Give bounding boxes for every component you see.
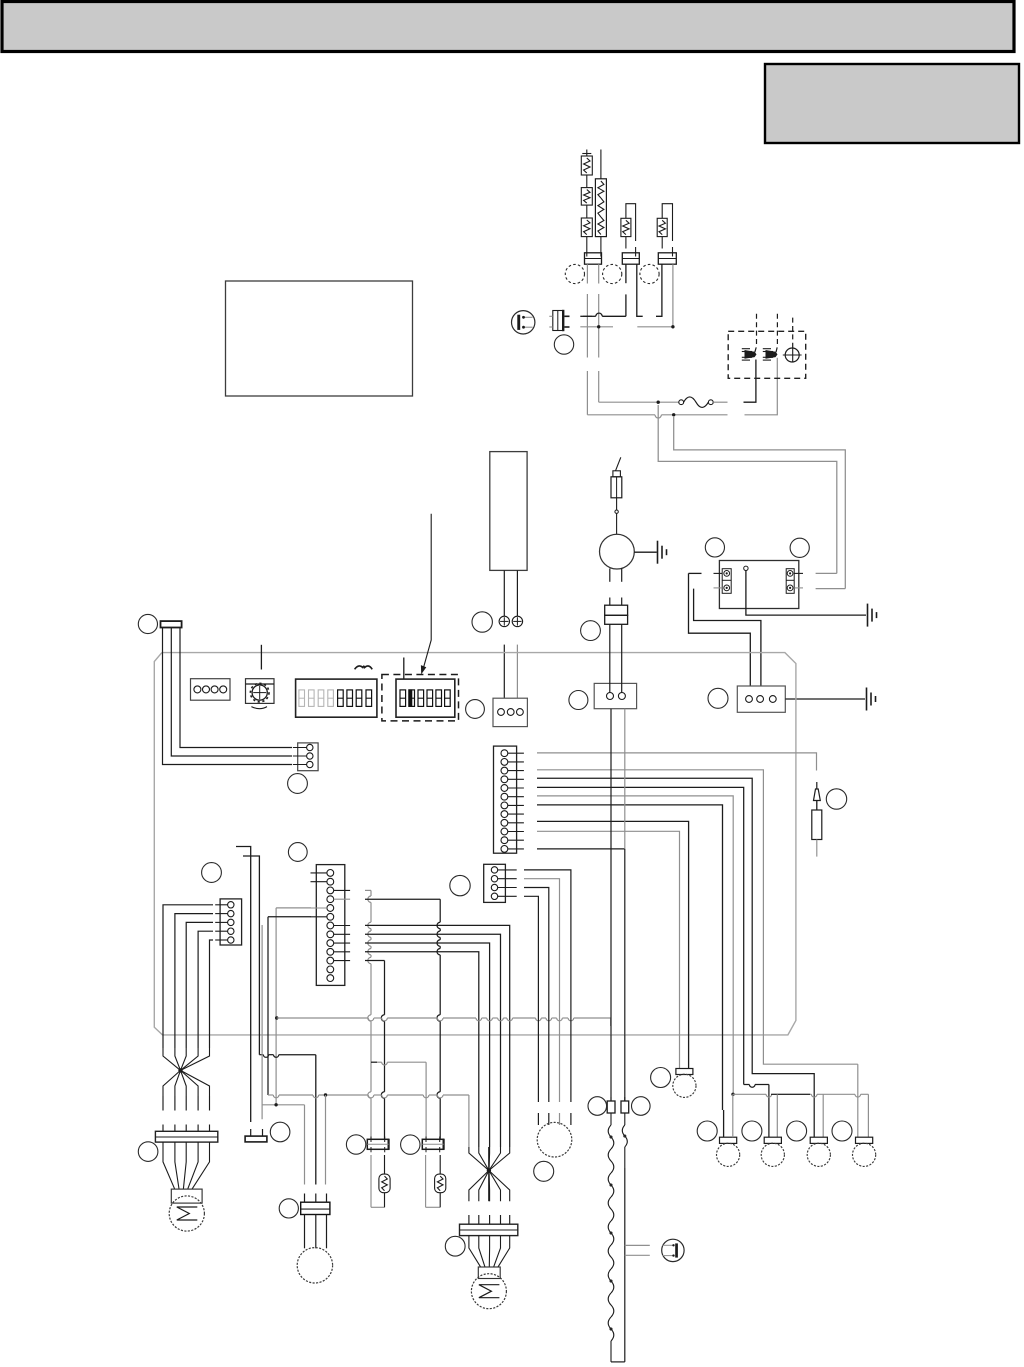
- wire fuse line: [599, 401, 679, 404]
- wire TB-C right: [637, 264, 674, 328]
- connector CN4: [737, 686, 785, 712]
- wire display lead 2: [516, 570, 518, 616]
- bus B1018: [275, 1016, 611, 1026]
- connector CN9 (4-pin): [484, 864, 517, 902]
- twisted wire right: [622, 1125, 627, 1362]
- resistor chain R1 (3 in series): [581, 150, 592, 257]
- wire relay left 2: [694, 589, 761, 686]
- callout 9: [708, 688, 728, 708]
- callout 29: [826, 789, 846, 809]
- wire L8: [537, 831, 680, 1068]
- title bar: [2, 2, 1014, 52]
- motor M1 neck: [171, 1189, 202, 1203]
- wire relay feed outer: [674, 417, 846, 589]
- wire bus L1: [580, 313, 626, 316]
- DIP switch SW2 (dashed): [382, 675, 459, 721]
- component PZ: [245, 1129, 267, 1142]
- callout 18: [445, 1236, 465, 1256]
- wire M4 fan: [469, 1236, 510, 1267]
- fuse F1: [679, 397, 728, 408]
- wire R5: [365, 943, 490, 1147]
- callout 1: [565, 264, 584, 283]
- wire L7: [537, 821, 689, 1068]
- resistor R2 (triple block): [595, 150, 606, 257]
- bus BB1094: [731, 1093, 868, 1138]
- callout 16: [346, 1135, 365, 1154]
- wire relay right top: [816, 572, 837, 574]
- DIP switch SW1: [296, 679, 377, 717]
- resistor R4 hairpin: [657, 204, 672, 257]
- wire screw to CN3 b: [516, 645, 518, 699]
- legend box: [226, 281, 413, 396]
- callout 10: [466, 700, 485, 719]
- motor M2: [537, 1122, 572, 1157]
- callout 5: [472, 612, 492, 632]
- connector CN6 (12-pin): [494, 746, 524, 853]
- callout 21: [632, 1097, 651, 1116]
- pair fuse FB: [621, 1097, 629, 1125]
- wire TB-B right: [637, 264, 643, 316]
- callout 7: [705, 538, 724, 557]
- callout 19: [651, 1068, 671, 1088]
- callout 25: [288, 843, 307, 862]
- brace mark: [355, 666, 373, 669]
- callout 20: [588, 1097, 607, 1116]
- callout 6: [581, 621, 601, 641]
- wire TB2-1: [180, 628, 292, 748]
- screw terminal 1: [499, 616, 509, 626]
- arrester E1: [742, 339, 757, 360]
- callout lamp 1: [697, 1121, 717, 1141]
- switch S1: [512, 311, 535, 334]
- power plug: [549, 310, 569, 331]
- wire L1: [537, 753, 817, 771]
- wire R7 fuse1 right: [365, 961, 385, 1140]
- terminal block TB-B: [622, 253, 639, 264]
- callout 4: [554, 335, 573, 354]
- screw terminal 2: [512, 616, 522, 626]
- wire FM ground: [634, 551, 657, 553]
- fan motor FM: [600, 534, 635, 569]
- wire TB2-3: [163, 628, 293, 765]
- ground G1: [658, 541, 667, 564]
- lamp LP1: [717, 1137, 740, 1166]
- pair end join: [611, 1361, 625, 1363]
- wire TB2-2: [171, 628, 292, 757]
- wire R2 fuse2 right: [365, 899, 440, 1139]
- surge arrester box (dashed): [728, 331, 806, 378]
- wire pin5 left: [276, 908, 311, 1105]
- dashed lead 2: [776, 314, 778, 338]
- callout 24: [202, 863, 222, 883]
- callout 2: [603, 264, 622, 283]
- lamp LP3: [807, 1137, 830, 1166]
- wire neutral line: [587, 413, 727, 418]
- display module: [490, 452, 527, 571]
- connector CN10: [293, 743, 318, 771]
- thermal fuse TF1: [371, 1155, 390, 1207]
- callout arrow: [421, 514, 431, 675]
- wire M1 fan: [163, 1142, 210, 1189]
- wire R6: [365, 952, 479, 1147]
- terminal strip TS1: [301, 1194, 330, 1249]
- callout 12: [279, 1199, 298, 1218]
- callout lamp 3: [787, 1121, 807, 1141]
- lamp LP0: [673, 1069, 696, 1098]
- callout 17: [401, 1135, 420, 1154]
- wire bus N1: [580, 325, 613, 328]
- wire to arrester 1: [744, 360, 756, 403]
- wire buzzer stub: [260, 645, 262, 670]
- callout 22: [138, 614, 157, 633]
- wire H1104: [262, 1103, 304, 1184]
- terminal block TB-C: [658, 253, 676, 264]
- callout 23: [288, 774, 308, 794]
- ground G3: [867, 688, 876, 711]
- subtitle box: [765, 64, 1019, 143]
- wire L4: [537, 787, 769, 1137]
- thermistor TH2: [812, 782, 822, 857]
- dashed lead 3: [792, 318, 794, 349]
- wire V262: [261, 925, 263, 1119]
- motor M4 neck: [478, 1267, 500, 1279]
- callout 15: [534, 1161, 554, 1181]
- motor M3: [297, 1248, 332, 1283]
- callout 11: [270, 1122, 290, 1142]
- wire M2 harness: [524, 870, 571, 1125]
- wire lamp1 right: [732, 1094, 734, 1137]
- wire V250: [236, 847, 251, 1123]
- PCB outline: [154, 653, 796, 1035]
- wire M4 stubs: [469, 1215, 510, 1224]
- wire L5: [537, 796, 733, 1094]
- thermistor TH1: [611, 457, 622, 534]
- wire TB-B left: [625, 264, 627, 316]
- wire display lead 1: [503, 570, 505, 616]
- wire L3: [537, 778, 814, 1137]
- wire M1 leads: [163, 1096, 210, 1131]
- wire SW2 stub: [403, 658, 405, 680]
- fuse holder FH2: [422, 1137, 443, 1153]
- callout 14: [450, 875, 470, 895]
- wire R3: [365, 925, 510, 1147]
- wire relay left 1: [689, 573, 751, 686]
- dashed lead 1: [756, 314, 758, 338]
- wire L9: [537, 848, 625, 850]
- callout lamp 2: [742, 1121, 762, 1141]
- connector CN3: [493, 698, 527, 726]
- connector bar CB2: [460, 1224, 518, 1235]
- wire pin6 left: [268, 917, 311, 1095]
- wire branch: [625, 1245, 650, 1255]
- wire relay coil to ground: [746, 571, 866, 616]
- motor M4: [471, 1274, 506, 1309]
- wire TB-A right: [598, 264, 600, 402]
- fuse holder FH1: [367, 1137, 388, 1153]
- pair fuse FA: [607, 1097, 615, 1125]
- wire screw to CN3 a: [503, 645, 505, 699]
- wire R4: [365, 934, 501, 1147]
- wire TB-C left: [656, 264, 662, 316]
- thermal fuse TF2: [426, 1155, 446, 1207]
- wire L6: [537, 805, 724, 1137]
- bus BA1095: [268, 1093, 469, 1184]
- earth terminal: [783, 348, 802, 362]
- relay RY1: [714, 561, 804, 609]
- switch S2: [662, 1239, 684, 1261]
- connector CN11: [594, 624, 636, 708]
- connector CN5: [191, 679, 231, 701]
- callout 3: [640, 264, 659, 283]
- ground G2: [868, 604, 877, 627]
- callout 30: [569, 691, 588, 710]
- terminal block TB-A: [585, 253, 602, 264]
- connector CN8 (5-pin): [215, 899, 241, 945]
- wire V259: [243, 856, 316, 1185]
- arrester E2: [763, 339, 778, 360]
- wire fuse2 feed: [371, 1062, 426, 1139]
- resistor R3 hairpin: [621, 204, 636, 257]
- callout 13: [138, 1142, 158, 1162]
- connector bar CB1: [155, 1131, 217, 1142]
- lamp LP2: [761, 1137, 784, 1166]
- wire CN4 to ground: [785, 698, 865, 700]
- wire TB-A left: [583, 264, 592, 415]
- capacitor block CB: [605, 605, 628, 624]
- wire L2: [537, 770, 858, 1137]
- lamp LP4: [853, 1137, 876, 1166]
- harness X1: [163, 905, 213, 1096]
- wire relay feed inner: [658, 405, 837, 573]
- wire power pair: [611, 709, 625, 1101]
- harness X2: [469, 1147, 510, 1201]
- motor M1: [169, 1196, 204, 1231]
- connector CN7 (13-pin): [311, 865, 351, 986]
- callout 8: [790, 538, 809, 557]
- terminal bar TB2: [161, 621, 182, 627]
- wire FM leads: [610, 568, 622, 605]
- wire to arrester 2: [745, 358, 778, 415]
- wire R1 fuse1 left: [365, 890, 371, 1139]
- wire relay right bottom: [816, 588, 846, 590]
- twisted wire left: [608, 1125, 614, 1362]
- callout lamp 4: [832, 1121, 852, 1141]
- buzzer BZ: [246, 679, 275, 709]
